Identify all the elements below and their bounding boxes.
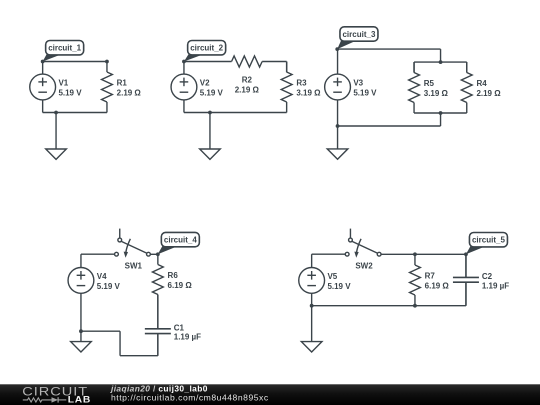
node: circuit2 ground junction: [208, 111, 212, 115]
svg-text:6.19 Ω: 6.19 Ω: [425, 281, 450, 290]
wire: circuit3 top rail: [337, 48, 440, 50]
ground circuit1: [46, 149, 67, 159]
wire: circuit4 V4 to SW1: [81, 253, 115, 255]
wire: circuit4 bottom riser: [119, 331, 121, 356]
node: circuit3 parallel top junction: [439, 60, 443, 64]
ground circuit4: [71, 342, 92, 352]
wire: circuit1 top rail: [43, 61, 107, 63]
wire: C2 top lead: [465, 254, 467, 277]
svg-text:V5: V5: [327, 272, 337, 281]
wire: circuit5 top rail: [381, 253, 466, 255]
svg-text:circuit_4: circuit_4: [164, 236, 197, 245]
svg-text:SW1: SW1: [125, 262, 143, 271]
node: circuit2 top-left junction: [182, 60, 186, 64]
svg-text:2.19 Ω: 2.19 Ω: [476, 89, 501, 98]
svg-text:3.19 Ω: 3.19 Ω: [296, 88, 321, 97]
wire: circuit4 ground stem: [80, 331, 82, 341]
svg-text:V2: V2: [200, 79, 210, 88]
node: circuit5 V5 bottom junction: [310, 304, 314, 308]
svg-text:2.19 Ω: 2.19 Ω: [235, 86, 260, 95]
svg-text:R6: R6: [168, 271, 179, 280]
wire: circuit3 top drop: [440, 49, 442, 62]
svg-text:SW2: SW2: [355, 262, 373, 271]
resistor R4: [461, 62, 501, 113]
svg-text:R2: R2: [242, 76, 253, 85]
svg-text:5.19 V: 5.19 V: [327, 282, 351, 291]
wire: R4 top lead: [466, 62, 468, 73]
resistor R2: [232, 56, 263, 95]
wire: circuit1 ground stem: [55, 113, 57, 150]
svg-text:circuit_1: circuit_1: [48, 44, 81, 53]
wire: R3 top lead: [286, 62, 288, 73]
node: circuit3 parallel bottom junction: [439, 111, 443, 115]
voltage source V2: [171, 62, 223, 113]
svg-text:1.19 µF: 1.19 µF: [482, 281, 509, 290]
wire: circuit4 to V4 bottom: [81, 330, 120, 332]
node: circuit5 C2 top junction: [464, 252, 468, 256]
CircuitLab logo: resistor zigzag: [23, 398, 52, 402]
wire: circuit5 bottom rail: [312, 305, 466, 307]
resistor R1: [102, 62, 142, 113]
svg-text:6.19 Ω: 6.19 Ω: [168, 281, 193, 290]
ground circuit3: [327, 149, 348, 159]
wire: C2 bottom lead: [465, 282, 467, 306]
svg-text:C2: C2: [482, 272, 493, 281]
svg-text:5.19 V: 5.19 V: [58, 88, 82, 97]
svg-text:http://circuitlab.com/cm8u448n: http://circuitlab.com/cm8u448n895xc: [111, 393, 269, 403]
svg-text:2.19 Ω: 2.19 Ω: [117, 88, 142, 97]
ground circuit2: [200, 149, 221, 159]
svg-text:5.19 V: 5.19 V: [200, 88, 224, 97]
voltage source V5: [299, 254, 351, 305]
wire: circuit1 bottom rail: [43, 112, 107, 114]
label circuit_5: [466, 233, 508, 255]
wire: C1 down: [157, 334, 159, 356]
wire: circuit5 V5 to SW2: [312, 253, 346, 255]
wire: circuit2 ground stem: [209, 113, 211, 150]
resistor R6: [152, 254, 192, 294]
svg-text:1.19 µF: 1.19 µF: [174, 333, 201, 342]
wire: circuit3 ground stem: [337, 126, 339, 149]
wire: circuit2 top rail left: [184, 61, 232, 63]
node: circuit4 SW1/R6 junction: [156, 252, 160, 256]
svg-text:R5: R5: [424, 79, 435, 88]
wire: circuit3 parallel top bus: [414, 61, 467, 63]
wire: circuit2 top rail right: [262, 61, 287, 63]
node: circuit1 ground junction: [54, 111, 58, 115]
svg-text:V4: V4: [97, 272, 107, 281]
svg-text:circuit_3: circuit_3: [342, 30, 375, 39]
svg-text:C1: C1: [174, 323, 185, 332]
wire: circuit3 parallel bottom bus: [414, 112, 467, 114]
svg-text:V3: V3: [353, 79, 363, 88]
voltage source V3: [325, 49, 377, 126]
label circuit_3: [337, 27, 378, 49]
svg-text:R4: R4: [476, 79, 487, 88]
label circuit_2: [184, 41, 226, 62]
svg-text:R3: R3: [296, 79, 307, 88]
svg-text:V1: V1: [58, 79, 68, 88]
svg-text:5.19 V: 5.19 V: [353, 88, 377, 97]
resistor R5: [409, 62, 449, 113]
wire: circuit5 ground stem: [311, 306, 313, 342]
wire: R6 to C1: [157, 295, 159, 329]
switch SW2: [345, 229, 381, 271]
svg-text:R1: R1: [117, 79, 128, 88]
wire: circuit4 bottom horizontal: [120, 355, 158, 357]
ground circuit5: [301, 342, 322, 352]
CircuitLab logo: diode: [52, 397, 59, 402]
wire: circuit3 bottom rail: [338, 125, 441, 127]
svg-text:circuit_5: circuit_5: [472, 236, 505, 245]
node: circuit1 top-right junction: [105, 60, 109, 64]
resistor R3: [281, 62, 321, 113]
capacitor C1: [145, 295, 201, 356]
node: circuit5 R7 bottom junction: [413, 304, 417, 308]
svg-text:R7: R7: [425, 272, 436, 281]
node: circuit1 top-left junction: [41, 60, 45, 64]
label circuit_4: [158, 232, 200, 254]
switch SW1: [115, 229, 151, 271]
wire: circuit3 bottom drop: [440, 113, 442, 126]
svg-text:LAB: LAB: [68, 395, 91, 405]
wire: SW1 to node: [150, 253, 158, 255]
node: circuit3 ground junction: [336, 124, 340, 128]
node: circuit4 ground junction: [79, 329, 83, 333]
voltage source V4: [68, 254, 120, 331]
resistor R7: [410, 254, 450, 305]
wire: R5 top lead: [413, 62, 415, 73]
wire: circuit2 bottom rail: [184, 112, 287, 114]
svg-text:3.19 Ω: 3.19 Ω: [424, 89, 449, 98]
node: circuit5 R7 top junction: [413, 252, 417, 256]
label circuit_1: [43, 41, 84, 62]
svg-text:circuit_2: circuit_2: [190, 44, 223, 53]
svg-text:5.19 V: 5.19 V: [97, 282, 121, 291]
voltage source V1: [30, 62, 82, 113]
capacitor C2: [453, 254, 509, 305]
node: circuit3 top-left junction: [335, 47, 339, 51]
